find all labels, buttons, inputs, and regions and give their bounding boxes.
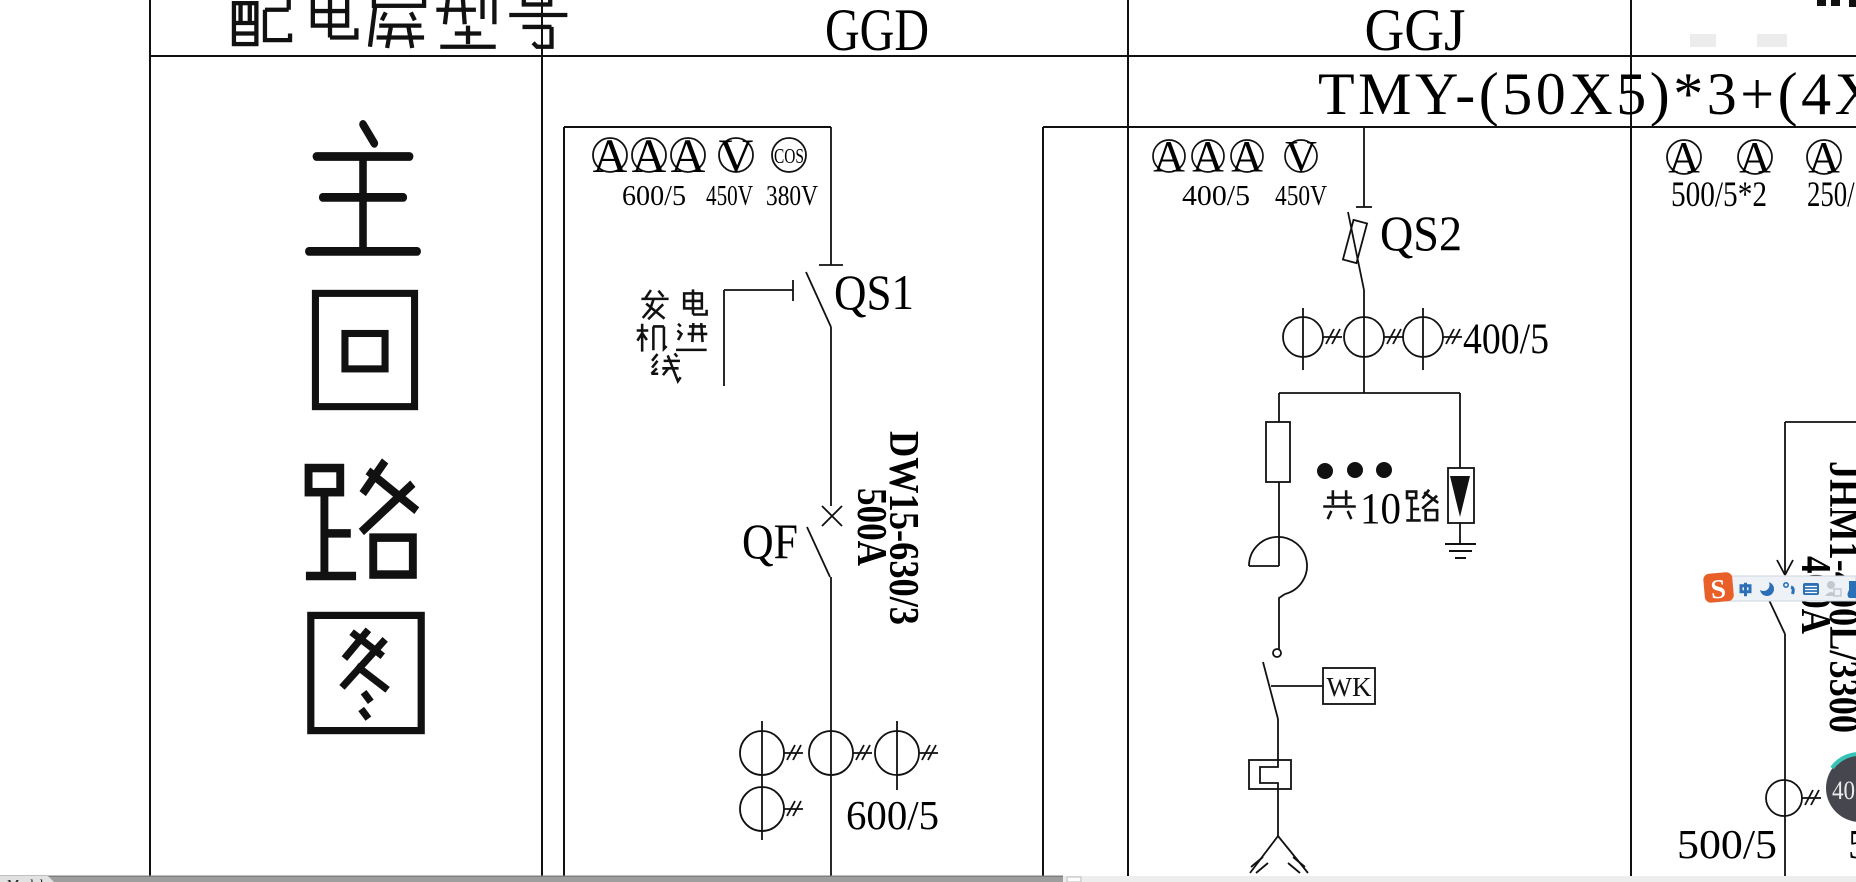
CT L2 (main wire) xyxy=(809,731,853,775)
scrollbar button xyxy=(1067,877,1081,882)
svg-text:A: A xyxy=(1231,132,1263,181)
surge arrester xyxy=(1448,393,1474,544)
thermal relay box xyxy=(1249,760,1291,789)
model tab xyxy=(0,876,54,882)
wire QS1 to QF xyxy=(830,327,832,506)
ghost marks xyxy=(1690,34,1787,47)
svg-text:400/5: 400/5 xyxy=(1463,316,1549,363)
zero sequence CT xyxy=(1249,537,1307,594)
GGD panel left border x564 xyxy=(563,127,565,876)
wire main GGD upper xyxy=(830,127,832,265)
generator feed horizontal wire xyxy=(724,289,793,291)
svg-text:QS2: QS2 xyxy=(1380,205,1462,261)
QS1 blade xyxy=(806,272,831,327)
breaker blade xyxy=(1769,600,1785,634)
label 共10路 xyxy=(1323,490,1438,521)
GGD panel right border x1043 xyxy=(1042,127,1044,876)
thermal relay heater detour xyxy=(1260,760,1278,789)
GGD panel top border xyxy=(564,126,831,128)
QF blade xyxy=(807,527,830,577)
meter A2 xyxy=(632,138,666,172)
V-split left leg xyxy=(1250,836,1278,873)
svg-text:A: A xyxy=(632,130,667,183)
meter A1 xyxy=(1667,140,1701,174)
wire QS2 to CTs xyxy=(1363,290,1365,393)
GGJ CT L1 xyxy=(1283,317,1323,357)
GGJ CT stubs xyxy=(1323,329,1342,344)
svg-text:40: 40 xyxy=(1832,776,1855,805)
branch horizontal wire xyxy=(1785,421,1856,423)
svg-text:WK: WK xyxy=(1327,672,1372,702)
svg-text:V: V xyxy=(1285,132,1317,181)
CT circle xyxy=(1766,780,1802,816)
switch blade xyxy=(1263,662,1278,719)
left branch wire upper xyxy=(1278,393,1280,422)
recorder circle 40 xyxy=(1826,754,1856,822)
dots x3 xyxy=(1317,462,1392,479)
meter A1 xyxy=(593,138,627,172)
svg-text:10: 10 xyxy=(1360,484,1401,533)
meter V xyxy=(719,138,753,172)
svg-text:500/5*2: 500/5*2 xyxy=(1671,174,1767,214)
meter A2 xyxy=(1192,140,1224,172)
wire to switch xyxy=(1279,594,1285,649)
svg-text:GGJ: GGJ xyxy=(1365,0,1466,63)
svg-text:400/5: 400/5 xyxy=(1182,180,1250,212)
switch hinge circle xyxy=(1273,649,1281,657)
svg-text:A: A xyxy=(1192,132,1224,181)
wire switch to thermal relay xyxy=(1277,719,1279,760)
column divider x1631 xyxy=(1630,0,1632,876)
QF cross mark xyxy=(822,506,842,526)
busbar row bottom line xyxy=(1043,126,1856,128)
V-split left ticks xyxy=(1251,857,1268,873)
svg-text:COS: COS xyxy=(774,144,804,168)
arrester triangle xyxy=(1450,476,1470,517)
QS1 interlock contact bar xyxy=(792,280,794,301)
CT N xyxy=(740,787,784,831)
svg-text:Model: Model xyxy=(7,878,44,882)
svg-text:GGD: GGD xyxy=(825,0,929,63)
svg-text:QS1: QS1 xyxy=(834,264,914,320)
generator feed vertical wire xyxy=(723,290,725,386)
svg-text:500A: 500A xyxy=(848,488,894,567)
svg-text:A: A xyxy=(671,130,706,183)
svg-text:A: A xyxy=(593,130,628,183)
title row bottom line xyxy=(150,55,1856,57)
QS2 fixed contact bar xyxy=(1356,206,1372,208)
svg-text:QF: QF xyxy=(742,513,798,569)
svg-text:250/5: 250/5 xyxy=(1807,174,1856,214)
svg-text:50: 50 xyxy=(1848,821,1856,867)
meter A1 xyxy=(1153,140,1185,172)
QS2 fuse body xyxy=(1343,220,1367,263)
column divider x542 xyxy=(541,0,543,876)
sogou toolbar xyxy=(1703,572,1856,605)
svg-text:450V: 450V xyxy=(706,180,753,212)
meter A3 xyxy=(1807,140,1841,174)
GGJ CT L2 xyxy=(1344,317,1384,357)
bottom bar right xyxy=(1063,876,1856,882)
arrow head xyxy=(1777,560,1793,575)
meter A2 xyxy=(1738,140,1772,174)
top-right glyph fragments xyxy=(1817,0,1856,7)
CT L3 xyxy=(875,731,919,775)
meter V xyxy=(1285,140,1317,172)
meter A3 xyxy=(1231,140,1263,172)
V-split right ticks xyxy=(1288,857,1305,873)
CT L1 xyxy=(740,731,784,775)
table left border xyxy=(149,0,151,876)
wire down xyxy=(1784,422,1786,574)
GGJ CT L3 xyxy=(1403,317,1443,357)
svg-text:600/5: 600/5 xyxy=(622,180,686,212)
wire QF to CTs xyxy=(830,577,832,876)
svg-text:450V: 450V xyxy=(1275,180,1327,212)
label 发电机进线 xyxy=(637,289,708,381)
svg-text:500/5: 500/5 xyxy=(1677,821,1777,867)
svg-text:S: S xyxy=(1709,573,1727,604)
wire to WK xyxy=(1271,685,1323,687)
column divider x1128 xyxy=(1127,0,1129,876)
svg-text:600/5: 600/5 xyxy=(846,792,939,838)
meter A3 xyxy=(671,138,705,172)
wire relay to V-split xyxy=(1277,789,1279,836)
QS2 blade xyxy=(1348,212,1364,290)
svg-text:V: V xyxy=(719,130,754,183)
wire GGJ from busbar xyxy=(1363,127,1365,207)
wire to CT xyxy=(1784,634,1786,876)
svg-text:A: A xyxy=(1153,132,1185,181)
svg-text:380V: 380V xyxy=(766,180,818,212)
fuse FU xyxy=(1266,422,1290,482)
QS1 fixed contact bar xyxy=(819,264,843,266)
V-split right leg xyxy=(1278,836,1308,873)
branch horizontal wire xyxy=(1279,392,1460,394)
vertical title 主回路图 xyxy=(306,124,421,730)
ground symbol xyxy=(1445,544,1476,558)
CT secondary stubs xyxy=(784,745,803,760)
wire fuse to zero-seq CT xyxy=(1278,482,1280,566)
bottom bar left xyxy=(0,876,1063,882)
WK box xyxy=(1323,668,1375,704)
meter COS xyxy=(772,138,806,172)
title 配电屏型号 xyxy=(231,0,567,48)
